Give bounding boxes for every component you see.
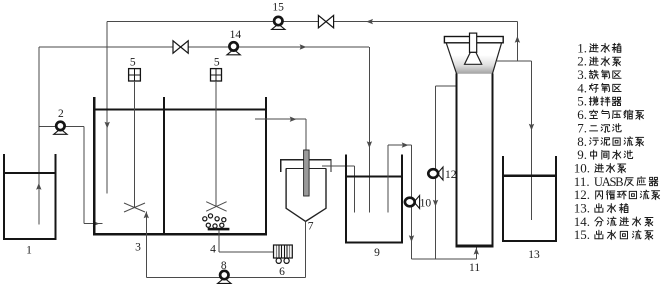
clarifier T7 body	[286, 168, 326, 221]
svg-text:14: 14	[230, 29, 242, 41]
clarifier T7 collar	[281, 160, 331, 172]
UASB R11 funnel left slope	[446, 43, 456, 74]
wire: air pipe riser	[218, 230, 220, 251]
legend line 7. 二沉池	[577, 120, 621, 135]
clarifier T7 centre feed pipe	[304, 150, 310, 196]
wire: internal circulation draw-off	[436, 85, 457, 87]
wire: tank9 suction riser	[387, 145, 389, 212]
svg-text:6: 6	[279, 266, 285, 278]
arrow: flow up into UASB	[474, 248, 479, 255]
mixer M5b impeller	[206, 202, 226, 212]
aeration diffuser plate	[208, 228, 230, 231]
tank: A/O basin water line	[94, 108, 266, 110]
wire: drop into clarifier centre well	[305, 119, 307, 152]
UASB R11 funnel shading	[450, 55, 498, 74]
wire: pump2 discharge into anoxic zone	[84, 223, 103, 225]
svg-text:7: 7	[308, 221, 314, 233]
svg-text:12: 12	[445, 169, 457, 181]
wire: clarifier effluent to tank9	[322, 165, 355, 167]
pump P14 (split inflow pump)	[227, 42, 240, 55]
UASB R11 gas pipe	[470, 33, 477, 52]
svg-text:15.: 15.	[574, 227, 590, 242]
valve V2 on bypass line	[173, 41, 188, 53]
compressor C6 (air compressor) body	[274, 245, 293, 258]
svg-text:11: 11	[469, 262, 480, 274]
svg-text:8: 8	[221, 260, 227, 272]
legend line 13. 出水箱	[574, 201, 628, 216]
arrow: flow up to return line	[515, 36, 520, 43]
pump P15 (effluent return pump)	[272, 17, 285, 30]
wire: sludge return riser into anoxic zone	[145, 212, 147, 278]
arrow: flow right into anoxic zone	[93, 221, 100, 226]
svg-text:UASB: UASB	[594, 175, 623, 189]
wire: UASB bottom inlet riser	[475, 247, 477, 259]
wire: internal circulation drop	[435, 86, 437, 259]
legend line 12. 内循环回流泵	[574, 187, 660, 202]
wire: UASB effluent launder run	[497, 60, 532, 62]
clarifier T7 rim line	[286, 167, 326, 169]
UASB R11 column right wall	[492, 74, 494, 246]
arrow: flow down into anoxic zone	[105, 122, 110, 129]
svg-text:15: 15	[272, 2, 284, 14]
legend list	[574, 40, 660, 242]
arrow: flow down into tank9	[367, 141, 372, 148]
wire: pump2 discharge drop	[83, 127, 85, 224]
air bubbles in aerobic zone	[203, 214, 226, 228]
svg-text:10: 10	[420, 198, 432, 210]
arrow: flow down after pump10	[409, 235, 414, 242]
wire: return line drop into anoxic zone	[106, 22, 108, 194]
legend line 4. 好氧区	[577, 80, 621, 95]
wire: suction top run	[388, 144, 412, 146]
tank: A/O basin bottom	[93, 233, 267, 236]
mixer M5b shaft	[215, 81, 217, 206]
wire: bypass drop into tank9	[368, 47, 370, 213]
pump P2 (inlet pump)	[54, 122, 67, 135]
tank T1 (inlet water tank)	[4, 154, 56, 239]
arrow: flow right to clarifier	[290, 117, 297, 122]
wire: bottom run to UASB	[412, 258, 477, 260]
svg-text:5: 5	[130, 57, 136, 69]
legend line 15. 出水回流泵	[574, 227, 653, 242]
wire: pump10 drop line	[411, 145, 413, 259]
legend line 14. 分流进水泵	[574, 214, 653, 229]
wire: sludge return horizontal	[146, 277, 305, 279]
UASB R11 column bottom	[456, 245, 494, 248]
svg-text:13: 13	[528, 249, 540, 261]
mixer M5a impeller	[124, 203, 145, 212]
pump P8 (sludge return pump)	[218, 271, 231, 284]
svg-text:4: 4	[210, 244, 216, 256]
water level in tank1	[4, 172, 56, 174]
arrow: flow right to pump10	[402, 142, 409, 147]
arrow: flow up into anoxic zone	[144, 212, 149, 219]
water level in tank9	[346, 175, 402, 177]
arrow: flow down to outlet tank	[529, 124, 534, 131]
wire: air pipe horizontal from compressor	[219, 251, 274, 253]
svg-text:1: 1	[26, 245, 32, 257]
arrow: flow right on bypass line	[300, 44, 307, 49]
svg-text:2: 2	[58, 108, 64, 120]
valve V1 on return line	[318, 15, 333, 27]
legend line 11. UASB反应器	[574, 174, 658, 189]
mixer M5a motor (anoxic)	[129, 69, 141, 81]
water level in tank13	[503, 175, 556, 177]
pump P12 (internal circulation pump)	[428, 167, 443, 180]
tank T9 (intermediate tank)	[346, 155, 402, 243]
arrow: flow up out of tank1	[36, 183, 41, 190]
UASB R11 gas deflector	[465, 52, 482, 64]
legend line 1. 进水箱	[577, 40, 621, 55]
legend line 6. 空气压缩泵	[577, 107, 643, 122]
pump P10 (UASB feed pump)	[405, 196, 420, 209]
tank: A/O basin right wall	[265, 97, 267, 235]
svg-text:5: 5	[214, 57, 220, 69]
wire: aerobic zone effluent to clarifier	[255, 118, 306, 120]
mixer M5b motor (aerobic)	[211, 69, 222, 81]
wire: suction riser from tank1	[38, 47, 40, 225]
legend line 8. 污泥回流泵	[577, 134, 643, 149]
compressor C6 wheels	[276, 258, 289, 263]
UASB R11 column left wall	[456, 74, 458, 246]
legend line 9. 中间水池	[577, 147, 632, 162]
wire: effluent drop inside tank9	[353, 166, 355, 212]
svg-text:3: 3	[135, 242, 141, 254]
arrow: flow down after pump12	[433, 200, 438, 207]
tank: A/O basin left wall	[93, 97, 95, 235]
wire: bypass feed line (tank1 to intermediate tank)	[39, 46, 369, 48]
legend line 3. 缺氧区	[577, 67, 621, 82]
UASB R11 top plate	[444, 37, 503, 43]
legend line 2. 进水泵	[577, 54, 620, 69]
UASB R11 funnel right slope	[493, 43, 502, 74]
legend line 10. 进水泵	[574, 160, 626, 175]
arrow: flow left on return line	[366, 19, 373, 24]
legend line 5. 搅拌器	[577, 94, 621, 109]
mixer M5a shaft	[133, 81, 135, 207]
wire: effluent drop to outlet tank	[531, 61, 533, 220]
wire: effluent return line top (UASB to anoxic zone)	[107, 21, 517, 23]
wire: effluent return riser to top line	[516, 22, 518, 62]
svg-text:9: 9	[374, 247, 380, 259]
wire: pump2 suction branch	[39, 126, 84, 128]
wire: clarifier underflow drop	[305, 221, 307, 277]
tank: A/O basin partition	[163, 97, 165, 235]
tank T13 (outlet water tank)	[503, 156, 556, 241]
